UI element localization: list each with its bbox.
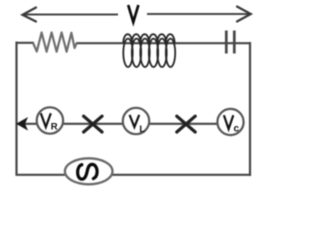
voltage arrow V: left shaft [23, 14, 118, 16]
label V (source voltage) [128, 5, 138, 22]
wire: left wall of loop [15, 42, 17, 176]
arrowhead at left wall of middle line [17, 118, 27, 129]
voltage arrow V: right shaft [147, 13, 250, 15]
voltmeter V_C [217, 109, 243, 135]
resistor R [33, 33, 77, 52]
wire: middle measuring line [17, 123, 219, 125]
source S (AC source ellipse) [65, 158, 113, 184]
inductor L: coil loops [123, 39, 175, 67]
node X1 (cross between V_R and V_L) [84, 116, 102, 132]
wire: right wall of loop [249, 42, 251, 176]
voltmeter V_L [123, 108, 149, 135]
wire: bottom of loop [16, 174, 252, 176]
inductor L: top arcs [123, 34, 174, 43]
wire: top-left segment to resistor [16, 42, 35, 44]
node X2 (cross between V_L and V_C) [177, 116, 195, 132]
voltage arrow V: left arrowhead [23, 8, 37, 22]
wire: top segment resistor to right corner [76, 42, 251, 44]
voltage arrow V: right arrowhead [237, 7, 251, 22]
svg-text:L: L [139, 124, 145, 135]
voltmeter V_R [37, 107, 63, 133]
svg-text:c: c [234, 123, 240, 134]
svg-text:R: R [51, 122, 58, 133]
capacitor C: left plate [225, 31, 228, 54]
capacitor C: right plate [233, 31, 236, 54]
